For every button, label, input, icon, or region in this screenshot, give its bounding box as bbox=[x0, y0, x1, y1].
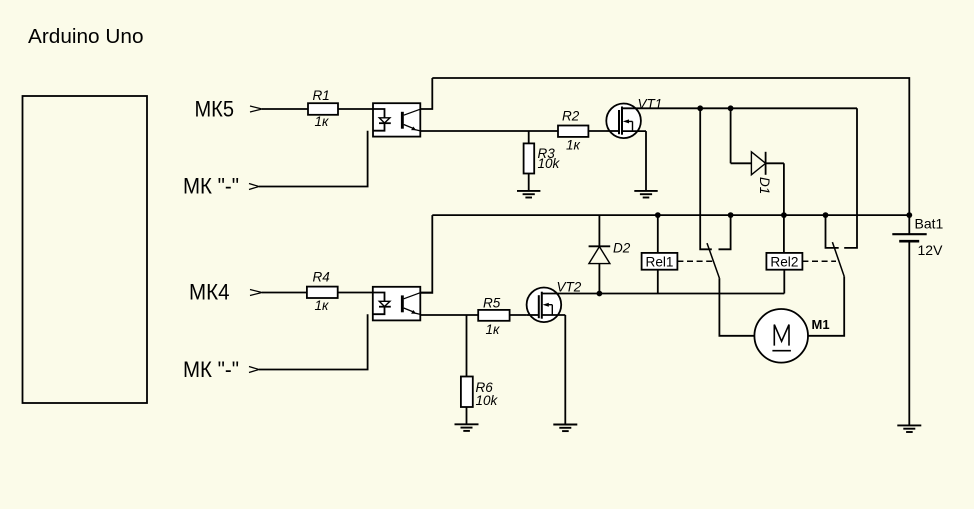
svg-text:1к: 1к bbox=[486, 322, 501, 337]
ground under battery bbox=[897, 425, 921, 432]
U1 phototransistor bbox=[401, 109, 420, 131]
relay coil Rel2 bbox=[766, 215, 802, 293]
connector arrow MK4 bbox=[250, 290, 262, 296]
transistor VT1 (n-MOSFET) bbox=[606, 104, 646, 139]
U1 LED bbox=[373, 109, 391, 131]
relay Rel1 contact blade bbox=[707, 243, 719, 278]
wire Rel1 contact common to motor left bbox=[719, 278, 754, 336]
node bus Rel2 contact bbox=[823, 212, 829, 218]
Arduino Uno board outline bbox=[23, 96, 148, 403]
connector arrow MK "-" upper bbox=[249, 184, 259, 190]
svg-text:10k: 10k bbox=[538, 156, 561, 171]
ground under VT2 bbox=[553, 425, 577, 432]
wire bus to Rel2 contact left terminal bbox=[826, 215, 839, 248]
optocoupler U2 box bbox=[373, 287, 421, 321]
connector arrow MK5 bbox=[250, 106, 262, 112]
svg-text:МК "-": МК "-" bbox=[183, 173, 239, 198]
node VT2 drain / D2 anode bbox=[597, 291, 603, 297]
svg-text:R5: R5 bbox=[483, 296, 501, 311]
svg-text:R1: R1 bbox=[313, 88, 330, 103]
svg-text:МК5: МК5 bbox=[195, 97, 235, 122]
svg-text:Arduino Uno: Arduino Uno bbox=[28, 26, 144, 48]
svg-text:D2: D2 bbox=[613, 240, 631, 255]
node bus battery bbox=[906, 212, 912, 218]
wire MK "-" to U1 LED cathode bbox=[259, 131, 368, 187]
resistor R6 bbox=[461, 315, 473, 424]
resistor R5 bbox=[478, 310, 509, 321]
wire VT2 source down bbox=[564, 315, 566, 425]
wire middle supply bus bbox=[432, 214, 909, 216]
wire top supply bus to battery bbox=[432, 78, 909, 215]
node drain-A bbox=[697, 105, 703, 111]
wire U1 collector to top bus bbox=[420, 78, 432, 109]
svg-text:Rel1: Rel1 bbox=[646, 253, 674, 269]
wire bus to Rel1 contact right terminal bbox=[719, 215, 731, 249]
wire MK "-" to U2 LED cathode bbox=[259, 314, 368, 369]
wire U1 emitter to gate net bbox=[420, 130, 558, 132]
connector arrow MK "-" lower bbox=[249, 367, 259, 373]
wire U2 emitter to lower gate net bbox=[420, 314, 478, 316]
svg-text:МК4: МК4 bbox=[189, 280, 230, 305]
motor M1 bbox=[754, 309, 808, 363]
wire drain to D1 anode bbox=[730, 108, 732, 163]
svg-text:R4: R4 bbox=[313, 270, 330, 285]
svg-text:Bat1: Bat1 bbox=[915, 216, 944, 232]
wire VT1 drain line bbox=[641, 107, 857, 109]
wire U2 collector to bus elbow bbox=[420, 292, 432, 294]
relay coil Rel1 bbox=[642, 215, 678, 293]
resistor R3 bbox=[524, 131, 535, 191]
node bus D1/Rel2 coil bbox=[781, 212, 787, 218]
resistor R2 bbox=[558, 126, 588, 137]
svg-text:M1: M1 bbox=[812, 317, 830, 332]
optocoupler U1 box bbox=[373, 103, 420, 136]
wire R1 to optocoupler U1 bbox=[338, 108, 373, 110]
wire drain to Rel1 contact left terminal bbox=[700, 108, 712, 249]
ground under R3 bbox=[517, 191, 540, 198]
wire Rel2 contact common to motor right bbox=[808, 276, 844, 335]
U2 phototransistor bbox=[401, 293, 420, 315]
wire VT1 source down bbox=[645, 131, 647, 191]
battery Bat1 bbox=[892, 215, 926, 425]
svg-text:Rel2: Rel2 bbox=[770, 253, 798, 269]
wire MK4 to R4 bbox=[262, 292, 307, 294]
wire bus elbow down to U2 collector bbox=[420, 215, 432, 293]
svg-text:1к: 1к bbox=[315, 298, 330, 313]
svg-text:R2: R2 bbox=[562, 109, 580, 124]
ground under VT1 bbox=[634, 191, 657, 198]
U2 LED bbox=[373, 293, 391, 315]
svg-text:VT1: VT1 bbox=[638, 97, 663, 112]
ground under R6 bbox=[455, 424, 479, 431]
transistor VT2 (n-MOSFET) bbox=[527, 288, 566, 323]
svg-text:12V: 12V bbox=[918, 242, 944, 258]
relay Rel2 contact blade bbox=[832, 242, 844, 276]
svg-text:VT2: VT2 bbox=[557, 280, 582, 295]
wire MK5 to R1 bbox=[262, 108, 308, 110]
node drain-B bbox=[728, 105, 734, 111]
wire R4 to optocoupler U2 bbox=[338, 292, 373, 294]
wire R2 to VT1 gate bbox=[588, 130, 606, 132]
svg-text:D1: D1 bbox=[757, 177, 772, 194]
Rel1 linkage dashed line bbox=[677, 260, 713, 262]
wire VT2 drain net bbox=[561, 293, 784, 295]
resistor R1 bbox=[308, 103, 338, 115]
wire R5 to VT2 gate bbox=[510, 314, 527, 316]
node bus Rel1 coil bbox=[655, 212, 661, 218]
wire D1 cathode to middle bus bbox=[783, 163, 785, 215]
node bus Rel1 contact bbox=[728, 212, 734, 218]
svg-text:1к: 1к bbox=[315, 114, 330, 129]
svg-text:1к: 1к bbox=[566, 138, 581, 153]
svg-text:10k: 10k bbox=[476, 393, 499, 408]
svg-text:МК "-": МК "-" bbox=[183, 357, 239, 382]
wire drain to Rel2 contact right terminal bbox=[844, 108, 857, 248]
diode D1 bbox=[731, 152, 784, 175]
diode D2 bbox=[589, 215, 611, 293]
Rel2 linkage dashed line bbox=[802, 260, 836, 262]
resistor R4 bbox=[307, 287, 338, 298]
